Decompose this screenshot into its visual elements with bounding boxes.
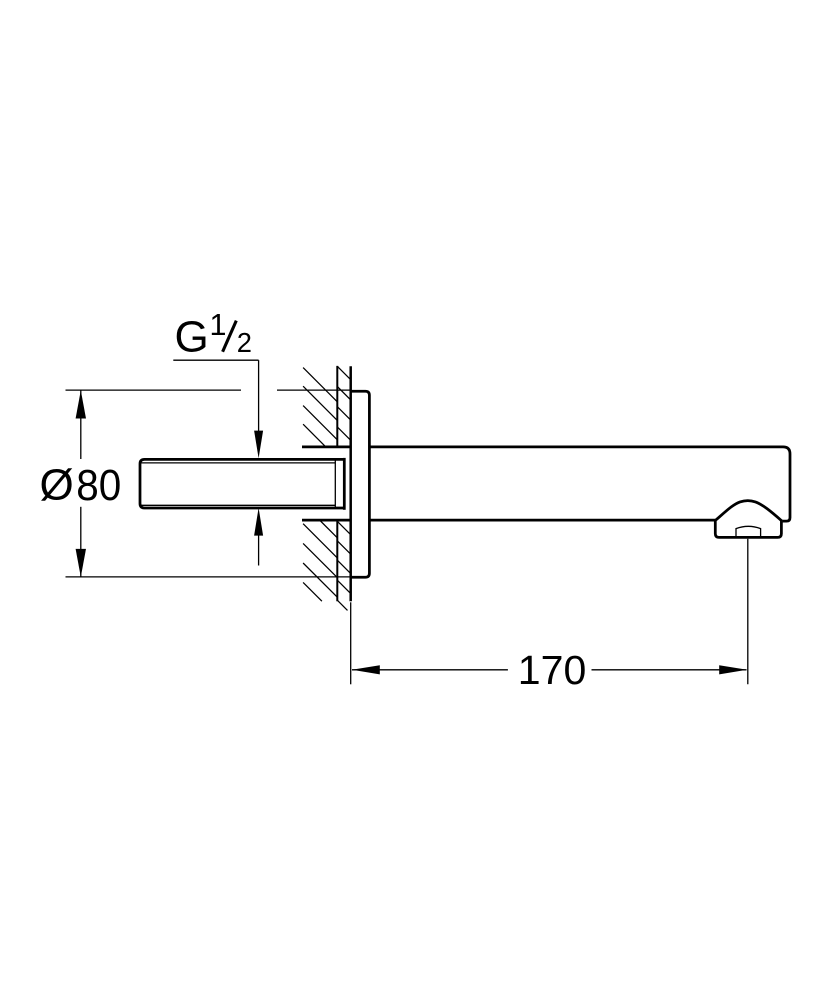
svg-text:Ø: Ø xyxy=(40,461,74,510)
svg-text:170: 170 xyxy=(518,647,587,693)
svg-text:2: 2 xyxy=(237,327,252,358)
svg-text:1: 1 xyxy=(210,308,227,342)
svg-text:80: 80 xyxy=(76,461,121,510)
svg-text:G: G xyxy=(175,313,209,362)
